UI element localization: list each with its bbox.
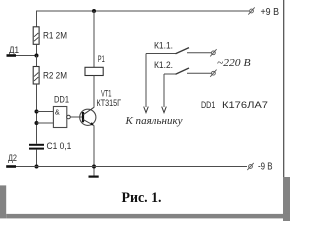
svg-text:P1: P1 bbox=[98, 54, 105, 64]
svg-text:-9 В: -9 В bbox=[258, 162, 273, 173]
label C1 0,1 bbox=[47, 141, 72, 151]
caption Рис. 1. bbox=[122, 190, 162, 206]
label Д2 bbox=[8, 153, 17, 163]
terminal К1.2 circle with slash bbox=[210, 70, 216, 77]
label К1.2. bbox=[154, 60, 173, 70]
resistor R2 bbox=[33, 67, 39, 85]
wire bottom rail -9V bbox=[16, 166, 247, 168]
label ~220 В bbox=[217, 57, 251, 69]
gate output inversion bubble bbox=[67, 115, 71, 119]
ground common bar bbox=[89, 176, 99, 178]
svg-text:&: & bbox=[55, 107, 60, 116]
node bottom rail left junction dot bbox=[35, 165, 39, 169]
switch К1.2 right lead bbox=[187, 72, 211, 74]
wire left rail R2 down to capacitor bbox=[36, 84, 38, 144]
svg-text:DD1: DD1 bbox=[201, 100, 215, 110]
svg-text:R1 2M: R1 2M bbox=[43, 31, 67, 41]
wire to gate input 1 bbox=[37, 111, 54, 113]
svg-text:Д1: Д1 bbox=[9, 45, 19, 55]
label P1 bbox=[98, 54, 105, 64]
switch К1.1 left lead bbox=[146, 53, 176, 55]
label R2 2M bbox=[43, 70, 67, 80]
svg-text:DD1: DD1 bbox=[54, 94, 69, 104]
terminal Д2 thick bar bbox=[6, 165, 16, 168]
wire VT1 emitter down bbox=[93, 126, 95, 177]
frame right border bbox=[283, 0, 285, 177]
wire to gate input 2 bbox=[37, 122, 54, 124]
NAND gate DD1 body bbox=[53, 107, 66, 128]
node A junction dot bbox=[35, 54, 39, 58]
switch К1.2 blade bbox=[176, 68, 190, 74]
svg-text:C1 0,1: C1 0,1 bbox=[47, 141, 72, 151]
frame bottom grey band bbox=[6, 214, 290, 219]
label R1 2M bbox=[43, 31, 67, 41]
wire relay P1 to VT1 collector bbox=[93, 76, 95, 108]
wire К1.1 drop to load bbox=[145, 54, 147, 108]
node top rail relay tap junction dot bbox=[92, 9, 96, 13]
switch К1.1 right lead bbox=[187, 52, 211, 54]
svg-text:Д2: Д2 bbox=[8, 153, 17, 163]
wire К1.2 drop to load bbox=[163, 74, 165, 107]
label К паяльнику bbox=[124, 115, 182, 127]
svg-text:~220 В: ~220 В bbox=[217, 57, 251, 69]
svg-text:КТ315Г: КТ315Г bbox=[97, 98, 122, 108]
arrow К1.2 load bbox=[162, 107, 167, 113]
arrow К1.1 load bbox=[144, 107, 149, 113]
label VT1 bbox=[101, 89, 112, 99]
wire top-left corner down to R1 bbox=[36, 11, 38, 28]
label -9 В bbox=[258, 162, 273, 173]
wire Д1 to node A bbox=[16, 55, 37, 57]
terminal К1.1 circle with slash bbox=[210, 49, 216, 56]
terminal +9V circle with slash bbox=[248, 7, 254, 14]
wire R1 to node A bbox=[36, 44, 38, 55]
capacitor C1 bbox=[29, 145, 44, 149]
node emitter bottom rail junction dot bbox=[92, 165, 96, 169]
svg-text:К1.1.: К1.1. bbox=[154, 40, 173, 50]
label КТ315Г bbox=[97, 98, 122, 108]
svg-text:К паяльнику: К паяльнику bbox=[124, 115, 182, 127]
label Д1 bbox=[9, 45, 19, 55]
switch К1.2 left lead bbox=[164, 73, 176, 75]
frame right grey column bbox=[283, 177, 290, 221]
wire gate output to VT1 base bbox=[70, 116, 83, 118]
svg-text:+9 В: +9 В bbox=[261, 7, 280, 18]
wire capacitor to bottom rail bbox=[36, 150, 38, 167]
svg-text:R2 2M: R2 2M bbox=[43, 70, 67, 80]
label DD1 bbox=[54, 94, 69, 104]
label К1.1. bbox=[154, 40, 173, 50]
terminal Д1 thick bar bbox=[7, 54, 17, 57]
svg-text:Рис. 1.: Рис. 1. bbox=[122, 190, 162, 206]
transistor VT1 bbox=[80, 107, 96, 125]
label +9 В bbox=[261, 7, 280, 18]
terminal -9V circle with slash bbox=[247, 163, 253, 170]
label DD1 К176ЛА7 bbox=[201, 100, 268, 110]
frame left grey column bbox=[0, 185, 6, 218]
switch К1.1 blade bbox=[176, 48, 190, 54]
resistor R1 bbox=[33, 27, 39, 45]
wire node A to R2 bbox=[36, 56, 38, 67]
node gate input 2 junction dot bbox=[35, 121, 39, 125]
wire top rail +9V bbox=[37, 10, 250, 12]
wire top rail down to relay P1 bbox=[93, 11, 95, 67]
svg-text:К176ЛА7: К176ЛА7 bbox=[222, 100, 268, 110]
node gate input 1 junction dot bbox=[35, 110, 39, 114]
relay P1 coil bbox=[85, 67, 103, 75]
svg-text:К1.2.: К1.2. bbox=[154, 60, 173, 70]
